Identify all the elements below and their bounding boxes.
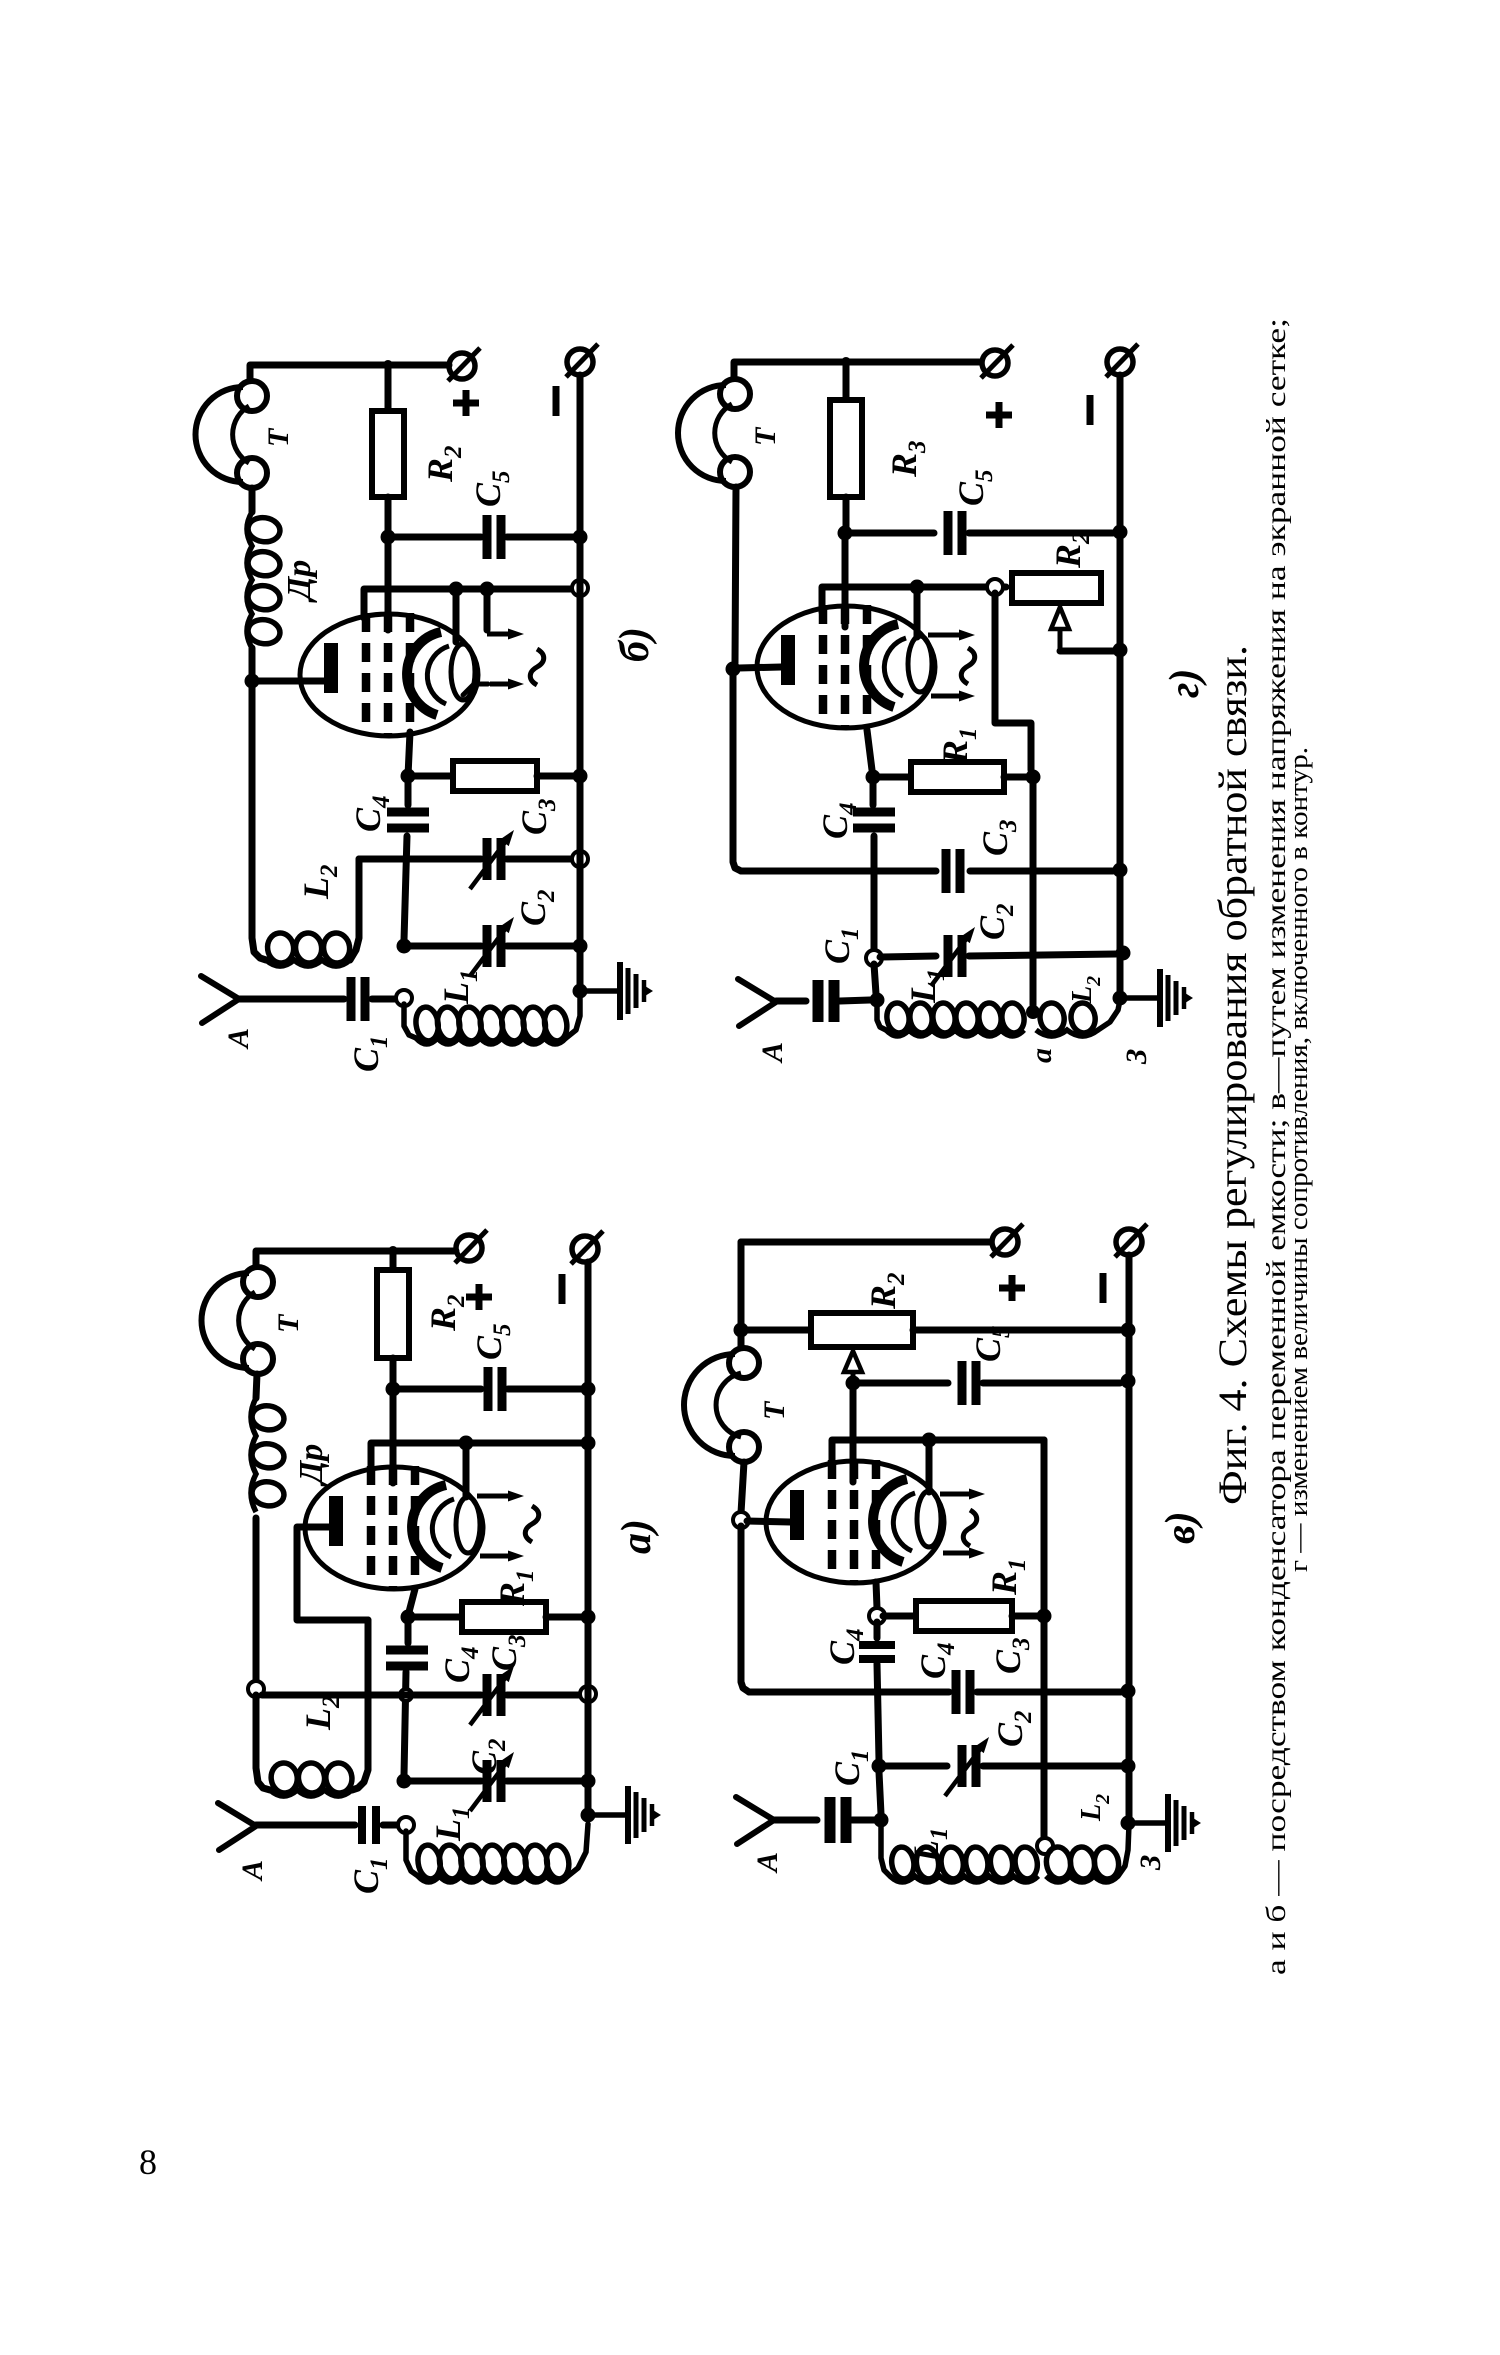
antenna A в): [736, 1797, 774, 1844]
svg-text:б): б): [612, 627, 658, 662]
wire C2 left б): [404, 943, 481, 950]
wire anode lead г): [739, 667, 781, 668]
junction C5 − rail г): [1113, 525, 1128, 540]
junction stub2 б): [480, 582, 495, 597]
wire screen grid lead в): [850, 1383, 857, 1482]
wire screen grid lead б): [385, 537, 392, 630]
wire to C5 а): [393, 1386, 481, 1393]
capacitor C1 г): [818, 980, 834, 1022]
junction screen node а): [386, 1382, 401, 1397]
junction cathode − rail а): [581, 1436, 596, 1451]
wire control grid lead в): [876, 1582, 877, 1608]
wire C3 to − rail г): [970, 868, 1113, 875]
wire C4 to tank а): [404, 1672, 406, 1775]
wire antenna to C1 б): [239, 996, 344, 1003]
wire to R1 а): [408, 1614, 462, 1621]
ground г): [1127, 969, 1193, 1027]
junction stub1 б): [449, 582, 464, 597]
capacitor C4 в): [859, 1645, 895, 1659]
wire left rail to C3 в): [741, 1526, 749, 1692]
wire to tank top г): [874, 964, 876, 994]
wire to tank top в): [879, 1772, 881, 1814]
resistor R3 г): [830, 400, 862, 497]
wire L2 to − rail г): [1098, 1000, 1120, 1030]
heater arrows and ~ в): [940, 1489, 985, 1559]
wire choke to anode node б): [249, 648, 256, 681]
label − в): [1100, 1273, 1107, 1303]
wire heater lower lead б): [463, 684, 488, 695]
wire stub to heater б): [484, 589, 491, 630]
junction ring grid leak в): [869, 1608, 885, 1624]
wire to C5 г): [845, 530, 934, 537]
headphones T б): [196, 381, 268, 488]
svg-text:T: T: [749, 426, 782, 446]
junction ring anode в): [733, 1512, 749, 1528]
wire C2 left г): [880, 956, 936, 957]
wire phones to anode node г): [735, 487, 736, 663]
terminal − а): [571, 1231, 603, 1264]
wire L2 to − rail в): [1118, 1824, 1129, 1876]
wire − rail в): [1126, 1255, 1133, 1823]
wire to R1 г): [879, 774, 911, 781]
wire C4 to tank б): [404, 836, 407, 940]
wire anode step а): [297, 1527, 368, 1620]
wire antenna to C1 г): [776, 998, 806, 1005]
junction R2 top б): [383, 360, 393, 370]
tube VL г): [757, 605, 935, 728]
wire to C5 б): [388, 534, 481, 541]
svg-text:Др: Др: [281, 560, 318, 603]
wire rail to R3 г): [843, 362, 850, 400]
label + а): [466, 1284, 492, 1310]
junction C2 − rail а): [581, 1774, 596, 1789]
tube VL в): [766, 1460, 944, 1583]
terminal + а): [455, 1230, 487, 1263]
junction C5 − rail в): [1121, 1374, 1136, 1389]
coil L2 а): [269, 1761, 354, 1796]
svg-text:A: A: [756, 1042, 789, 1064]
capacitor C4 г): [853, 812, 895, 828]
label − а): [559, 1274, 566, 1304]
junction R1 cathode line в): [1037, 1609, 1052, 1624]
capacitor C4 б): [387, 812, 429, 828]
capacitor C1 а): [362, 1806, 376, 1844]
junction R2 left в): [734, 1323, 749, 1338]
junction ring C3 − rail а): [580, 1686, 596, 1702]
junction ring C2 node г): [866, 950, 882, 966]
junction tank top г): [870, 993, 885, 1008]
ground а): [595, 1786, 661, 1844]
junction grid leak node б): [401, 769, 416, 784]
label − г): [1087, 395, 1094, 425]
svg-text:З: З: [1134, 1855, 1167, 1871]
wire stub to cathode в): [926, 1440, 933, 1492]
wire wiper to − rail г): [1060, 648, 1114, 655]
resistor R2 а): [377, 1270, 409, 1358]
capacitor C2 variable а): [470, 1752, 514, 1811]
junction wiper − rail г): [1113, 643, 1128, 658]
wire to C4 б): [405, 776, 412, 805]
junction ring tank top б): [396, 990, 412, 1006]
junction C4 tank node а): [397, 1774, 412, 1789]
wire anode to L2 riser а): [352, 1620, 368, 1790]
junction C3 − rail г): [1113, 863, 1128, 878]
wire C2 left в): [885, 1763, 947, 1770]
headphones T в): [684, 1348, 759, 1462]
capacitor C3 г): [946, 849, 960, 893]
antenna A б): [201, 976, 239, 1023]
wire cathode top rail г): [822, 587, 1006, 612]
junction C2 node в): [872, 1759, 887, 1774]
wire cathode top rail б): [364, 589, 574, 618]
wire − rail б): [577, 375, 584, 991]
wire C3 to − rail в): [977, 1689, 1121, 1696]
coil L1 а): [406, 1831, 418, 1876]
wire R2 to − rail в): [913, 1327, 1120, 1334]
wire C1 to tank а): [383, 1822, 400, 1829]
capacitor C5 а): [488, 1367, 502, 1411]
junction ring cathode rail б): [572, 580, 588, 596]
label + в): [999, 1275, 1025, 1301]
wire control grid lead а): [409, 1589, 415, 1612]
wire to grid resistor б): [408, 773, 453, 780]
rheostat R2 г): [1012, 573, 1101, 603]
choke Др а): [250, 1398, 285, 1512]
heater arrows and ~ г): [928, 630, 975, 702]
junction tank top в): [874, 1813, 889, 1828]
svg-text:З: З: [1120, 1049, 1153, 1065]
wire anode lead в): [747, 1521, 790, 1522]
antenna A г): [738, 979, 776, 1026]
choke Др б): [246, 512, 281, 648]
capacitor C1 б): [351, 977, 365, 1021]
wire tap node down г): [995, 593, 1031, 770]
wire C1 to tank в): [852, 1817, 875, 1824]
wire stub to cathode г): [914, 587, 921, 637]
wire L2 riser б): [350, 859, 359, 960]
headphones T а): [202, 1267, 274, 1374]
junction ring tap node г): [987, 579, 1003, 595]
wire to C4 а): [405, 1617, 412, 1643]
svg-text:8: 8: [139, 2142, 157, 2182]
junction ring C3 − rail б): [572, 851, 588, 867]
wire top rail б) phones to + terminal: [250, 365, 449, 381]
resistor grid leak б): [453, 761, 537, 791]
wire stub to cathode б): [453, 589, 460, 642]
wire C1 to tank б): [372, 996, 398, 1003]
coil L2 в): [1044, 1845, 1120, 1882]
wire rail to L2 а): [256, 1695, 270, 1790]
coil L2 г): [1036, 1001, 1098, 1036]
headphones T г): [678, 379, 750, 487]
terminal − г): [1106, 344, 1138, 377]
junction screen node г): [838, 526, 853, 541]
junction C3 − rail в): [1121, 1684, 1136, 1699]
wire L1 to − rail а): [568, 1824, 588, 1876]
junction ground а): [581, 1808, 596, 1823]
junction resistor − rail б): [573, 769, 588, 784]
tube VL а): [305, 1466, 483, 1589]
wire screen grid lead а): [390, 1389, 397, 1483]
capacitor C3 variable б): [470, 830, 514, 889]
capacitor C3 variable а): [470, 1666, 514, 1725]
antenna A а): [218, 1803, 256, 1850]
wire control grid lead б): [408, 732, 410, 776]
svg-text:T: T: [758, 1400, 791, 1420]
junction ring tank top а): [398, 1817, 414, 1833]
svg-text:г — изменением величины сопрот: г — изменением величины сопротивления, в…: [1284, 747, 1313, 1572]
wire C2 to − rail б): [507, 943, 574, 950]
capacitor C1 в): [830, 1797, 846, 1843]
svg-text:T: T: [262, 427, 295, 447]
wire top rail а): [256, 1251, 456, 1266]
terminal − б): [566, 344, 598, 377]
junction C2 − rail в): [1121, 1759, 1136, 1774]
wire C3 left б): [359, 856, 481, 863]
capacitor C5 в): [962, 1361, 976, 1405]
wire left rail to C3 г): [733, 669, 741, 871]
wire antenna to C1 в): [774, 1817, 817, 1824]
capacitor C5 б): [487, 515, 501, 559]
ground в): [1135, 1794, 1201, 1852]
wire tap riser г): [1030, 783, 1037, 1006]
junction stub г): [910, 580, 925, 595]
wire grid resistor to − rail б): [537, 773, 580, 780]
junction grid leak node а): [401, 1610, 416, 1625]
junction grid leak node г): [866, 770, 881, 785]
svg-text:Фиг. 4. Схемы регулирования об: Фиг. 4. Схемы регулирования обратной свя…: [1210, 645, 1255, 1505]
junction C2 − rail б): [573, 939, 588, 954]
wire left rail to L2 б): [252, 681, 266, 960]
svg-text:в): в): [1158, 1511, 1204, 1544]
junction R3 top г): [841, 357, 851, 367]
wire antenna to C1 а): [256, 1822, 355, 1829]
junction ring left rail C3 а): [248, 1681, 264, 1697]
wire to C4 г): [870, 783, 877, 805]
junction C5 − rail б): [573, 530, 588, 545]
junction R2 − rail в): [1121, 1323, 1136, 1338]
wire C3 left г): [741, 868, 936, 875]
heater arrows and ~ б): [487, 629, 544, 690]
tube VL б): [300, 613, 478, 736]
junction stub в): [922, 1433, 937, 1448]
capacitor C5 г): [948, 511, 962, 555]
svg-text:Др: Др: [293, 1444, 330, 1487]
svg-text:T: T: [272, 1313, 305, 1333]
terminal + г): [981, 345, 1013, 378]
coil L1 б): [404, 1004, 416, 1038]
capacitor C3 в): [956, 1670, 970, 1714]
label − б): [553, 386, 560, 416]
resistor R1 а): [462, 1602, 546, 1632]
capacitor C2 variable б): [470, 917, 514, 976]
wire rail to R2 в): [747, 1327, 811, 1334]
wire C4 down в): [877, 1664, 879, 1760]
wire left rail а): [253, 1518, 260, 1683]
junction stub а): [459, 1436, 474, 1451]
svg-text:г): г): [1162, 669, 1208, 699]
capacitor C2 variable в): [945, 1737, 989, 1796]
junction tap а г): [1026, 1005, 1040, 1019]
label + г): [986, 402, 1012, 428]
wire C5 to − rail г): [969, 530, 1113, 537]
wire cathode top rail а): [371, 1443, 588, 1470]
junction C5 − rail а): [581, 1382, 596, 1397]
capacitor C2 variable г): [931, 927, 975, 986]
coil L1 в): [881, 1826, 890, 1876]
wire to C4 в): [874, 1622, 881, 1638]
wire C4 down г): [871, 836, 878, 952]
junction R1 − rail а): [581, 1610, 596, 1625]
wiper arrow R2 в): [851, 1372, 856, 1383]
wire − rail г): [1117, 375, 1124, 998]
svg-text:а): а): [614, 1519, 660, 1554]
junction ring tap в): [1037, 1838, 1053, 1854]
terminal − в): [1115, 1224, 1147, 1257]
heater arrows and ~ а): [477, 1491, 539, 1562]
junction anode node г): [726, 662, 741, 677]
wire R1 right в): [1012, 1613, 1037, 1620]
wire C3 left в): [749, 1689, 949, 1696]
junction wiper screen node в): [846, 1376, 861, 1391]
resistor R1 г): [911, 762, 1004, 792]
wire R1 right г): [1004, 774, 1026, 781]
wire cathode top rail в): [832, 1440, 1044, 1467]
junction anode node б): [245, 674, 260, 689]
resistor R2 б): [372, 411, 404, 497]
wire C2 to − rail в): [983, 1763, 1121, 1770]
wire − rail а): [585, 1262, 592, 1815]
wire phones to choke а): [256, 1374, 257, 1398]
wire to R1 в): [883, 1613, 916, 1620]
junction R2 top а): [388, 1246, 398, 1256]
wire C2 to − rail а): [507, 1778, 581, 1785]
wire R2 to C5 node а): [390, 1358, 397, 1389]
wire stub to cathode а): [463, 1443, 470, 1497]
capacitor C4 а): [386, 1650, 428, 1666]
wire phones to anode node в): [741, 1462, 744, 1513]
ground б): [587, 962, 653, 1020]
potentiometer R2 в): [811, 1313, 913, 1347]
junction C4 tank node б): [397, 939, 412, 954]
wire C5 to − rail а): [508, 1386, 588, 1393]
wire cathode to tap в): [1041, 1440, 1048, 1842]
junction ground б): [573, 984, 588, 999]
wire R2 to C5 node б): [385, 497, 392, 537]
wire C5 to − rail б): [507, 534, 580, 541]
terminal + б): [448, 348, 480, 381]
wiper arrow R2 г): [1058, 628, 1063, 651]
junction ring crossing а): [400, 1689, 412, 1701]
wire C2 left а): [404, 1778, 481, 1785]
wire + rail to R2 б): [385, 365, 392, 411]
wire R1 to − rail а): [546, 1614, 588, 1621]
svg-text:A: A: [236, 1860, 269, 1882]
wire C3 to − rail б): [507, 856, 574, 863]
svg-text:A: A: [222, 1028, 255, 1050]
junction ground г): [1113, 991, 1128, 1006]
wire left rail top в): [738, 1242, 745, 1348]
wire R3 to C5 node г): [843, 497, 850, 533]
resistor R1 в): [916, 1601, 1012, 1631]
wire phones to choke б): [249, 488, 256, 512]
wire control grid lead г): [867, 730, 872, 770]
junction R1 tap г): [1026, 770, 1041, 785]
junction C2 − rail г): [1116, 946, 1131, 961]
svg-text:A: A: [751, 1852, 784, 1874]
wire C3 left а): [262, 1692, 481, 1699]
wire C1 to tank г): [840, 1000, 870, 1001]
wire rail to R2 а): [390, 1251, 397, 1270]
label + б): [453, 390, 479, 416]
terminal + в): [991, 1224, 1023, 1257]
wire screen grid lead г): [842, 533, 849, 627]
wire C5 to − rail в): [983, 1380, 1120, 1387]
junction ground в): [1121, 1816, 1136, 1831]
coil L1 г): [877, 1006, 886, 1030]
wire anode lead б): [252, 678, 327, 685]
coil L2 б): [266, 931, 352, 966]
wire L1 to − rail б): [566, 996, 580, 1038]
svg-text:а: а: [1025, 1048, 1058, 1063]
wire C2 to − rail г): [969, 954, 1116, 956]
wire top rail в): [741, 1242, 991, 1258]
wire to C5 в): [853, 1380, 948, 1387]
junction screen node б): [381, 530, 396, 545]
wire C3 to − rail а): [507, 1692, 581, 1699]
wire top rail г): [734, 362, 981, 380]
